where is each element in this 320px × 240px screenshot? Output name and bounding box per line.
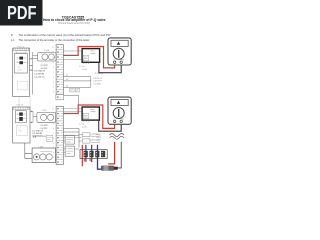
svg-text:1-2 a4: 1-2 a4	[79, 66, 84, 68]
svg-text:10: 10	[52, 118, 54, 120]
svg-text:1): 1)	[11, 33, 13, 37]
svg-text:3-1 GND: 3-1 GND	[93, 83, 101, 85]
svg-text:7: 7	[53, 72, 54, 74]
svg-text:2-3 PVC P: 2-3 PVC P	[93, 78, 103, 80]
svg-text:L 506: L 506	[42, 110, 47, 112]
svg-text:1: 1	[60, 97, 61, 99]
svg-text:a2: a2	[66, 79, 68, 81]
svg-text:1-1: 1-1	[11, 38, 15, 42]
svg-text:2-6 b1: 2-6 b1	[82, 69, 87, 71]
svg-text:blue lead 2: blue lead 2	[92, 136, 101, 138]
svg-text:5: 5	[53, 143, 54, 145]
svg-text:10: 10	[52, 57, 54, 59]
svg-text:2-4 P47 P: 2-4 P47 P	[93, 81, 102, 83]
svg-text:2: 2	[53, 157, 54, 159]
svg-text:2-6 b1: 2-6 b1	[82, 127, 87, 129]
svg-text:9: 9	[53, 123, 54, 125]
svg-text:6: 6	[53, 77, 54, 79]
svg-text:2-3 24.5V: 2-3 24.5V	[95, 73, 104, 75]
svg-text:11: 11	[52, 52, 54, 54]
svg-text:8: 8	[53, 67, 54, 69]
svg-text:R.05: R.05	[18, 70, 22, 72]
svg-text:3: 3	[53, 92, 54, 94]
svg-text:1 2: 1 2	[18, 67, 21, 69]
svg-text:(Printed board serie PVC-P01): (Printed board serie PVC-P01)	[58, 22, 91, 25]
svg-text:holder: holder	[91, 111, 96, 113]
svg-text:11: 11	[52, 114, 54, 116]
svg-text:1 2: 1 2	[18, 128, 21, 130]
svg-text:7: 7	[53, 133, 54, 135]
svg-text:PVC P47: PVC P47	[17, 105, 24, 107]
svg-text:9: 9	[53, 62, 54, 64]
svg-text:holder: holder	[91, 53, 96, 55]
svg-text:L 506: L 506	[44, 50, 49, 52]
svg-text:5: 5	[53, 82, 54, 84]
svg-text:8: 8	[53, 128, 54, 130]
svg-text:4-1 24V DC: 4-1 24V DC	[34, 76, 45, 78]
svg-text:6: 6	[53, 138, 54, 140]
svg-text:2-4 P47: 2-4 P47	[41, 68, 49, 70]
svg-text:3-1 GND 0V: 3-1 GND 0V	[34, 71, 46, 73]
svg-text:blue lead 4: blue lead 4	[92, 142, 101, 144]
svg-text:2-3 PVC: 2-3 PVC	[41, 65, 49, 67]
svg-text:4: 4	[53, 87, 54, 89]
svg-text:a1: a1	[66, 75, 68, 77]
svg-text:3-2 SIG AV: 3-2 SIG AV	[34, 73, 45, 76]
svg-text:PDF: PDF	[7, 3, 37, 23]
svg-text:1-2 a4: 1-2 a4	[79, 123, 84, 125]
svg-text:a3: a3	[66, 85, 68, 87]
svg-text:The connection of the ammeter: The connection of the ammeter or the con…	[19, 38, 90, 42]
svg-text:12: 12	[52, 109, 54, 111]
svg-text:R.05: R.05	[18, 131, 22, 133]
svg-text:The confirmation of the curren: The confirmation of the current value (A…	[19, 33, 111, 37]
svg-text:12: 12	[52, 47, 54, 49]
svg-text:3: 3	[53, 152, 54, 154]
